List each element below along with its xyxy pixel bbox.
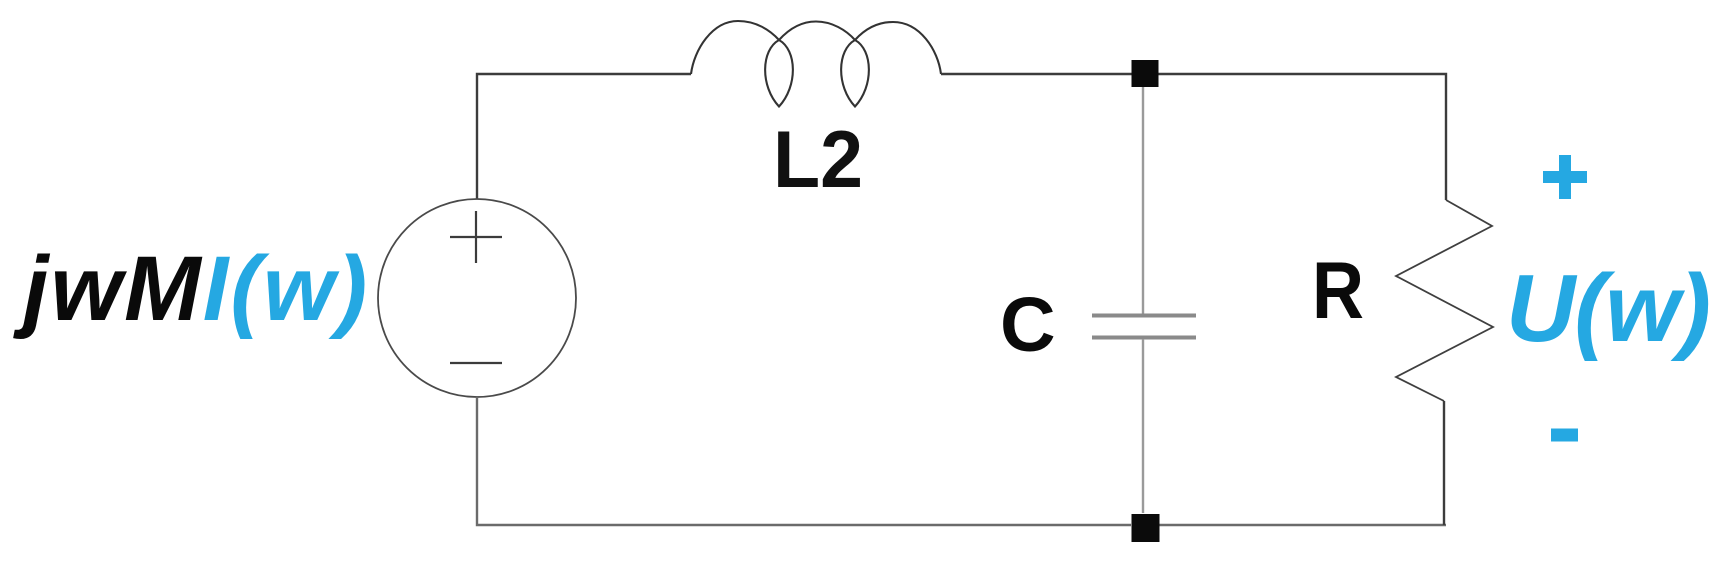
voltage source U1 (circle) <box>378 199 576 397</box>
capacitor C plates <box>1092 314 1196 318</box>
capacitor branch wire lower <box>1142 339 1144 513</box>
plus polarity mark (cyan) <box>1543 155 1587 199</box>
svg-text:C: C <box>1000 282 1056 368</box>
node junction bottom (filled square) <box>1132 514 1160 542</box>
plus mark inside source <box>450 211 502 263</box>
wire bottom-right <box>1159 524 1446 526</box>
wire bottom-left vertical (source bottom to bottom rail) <box>477 397 1131 525</box>
capacitor branch wire upper <box>1142 87 1144 314</box>
node junction top (filled square) <box>1132 60 1159 87</box>
minus polarity mark (cyan) <box>1551 429 1578 442</box>
inductor L2 <box>691 21 941 107</box>
wire top-left horizontal (source top to inductor) <box>477 74 691 199</box>
svg-text:R: R <box>1312 246 1364 336</box>
svg-text:jwMI(w): jwMI(w) <box>13 238 369 340</box>
minus mark inside source <box>450 362 502 364</box>
svg-text:L2: L2 <box>773 115 863 205</box>
wire right vertical below resistor <box>1443 401 1445 525</box>
wire top-right horizontal (inductor to resistor corner) <box>941 74 1446 200</box>
svg-text:U(w): U(w) <box>1506 255 1710 362</box>
resistor R zigzag <box>1396 200 1493 401</box>
